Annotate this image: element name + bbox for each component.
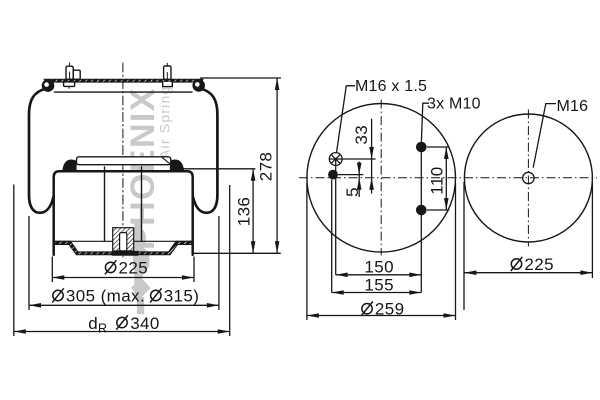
dim line 155: [332, 292, 422, 294]
svg-text:33: 33: [352, 125, 371, 145]
h-centerline shared: [299, 177, 597, 179]
svg-text:5: 5: [343, 187, 362, 197]
bar chamfer notch: [162, 157, 170, 164]
piston interior tube left: [104, 167, 106, 241]
svg-text:M16: M16: [557, 98, 589, 115]
dim line 225: [52, 277, 194, 279]
piston interior tube right: [141, 167, 143, 241]
arrows 225 left view: [52, 275, 64, 280]
dim line 259: [307, 315, 456, 317]
ext lines dR 340: [13, 185, 15, 337]
v-centerline: [527, 110, 529, 247]
centerline left view: [122, 63, 124, 257]
dim line 150: [336, 274, 422, 276]
arrows 33 (outside): [369, 147, 374, 159]
piston top bar: [77, 157, 171, 165]
arrows 305: [29, 303, 41, 308]
leader M16x1.5: [337, 86, 356, 153]
center bolt stud: [120, 233, 127, 251]
arrows 5 (outside): [357, 163, 362, 175]
arrows 225 right: [464, 270, 476, 275]
v-centerline: [380, 100, 382, 256]
svg-text:278: 278: [257, 152, 276, 182]
piston bottom rim top line: [55, 240, 192, 242]
ext line right dots: [420, 147, 422, 293]
svg-text:340: 340: [130, 314, 160, 333]
center hole M16: [523, 172, 534, 183]
ext line top 278: [200, 77, 281, 79]
svg-text:155: 155: [364, 276, 394, 295]
svg-text:Air Springs: Air Springs: [157, 77, 173, 159]
plate lower line: [55, 91, 193, 93]
center bolt nut: [111, 251, 138, 256]
text 225 right: [511, 257, 523, 271]
arrows 155: [332, 290, 344, 295]
svg-text:M16 x 1.5: M16 x 1.5: [355, 78, 427, 95]
svg-text:3x M10: 3x M10: [427, 96, 481, 113]
svg-text:315): 315): [164, 286, 200, 305]
watermark logo stem: [137, 297, 144, 314]
piston circle 225: [464, 114, 592, 242]
ext lines 305: [28, 216, 30, 310]
stud right: [163, 63, 173, 86]
svg-text:225: 225: [119, 258, 149, 277]
dim line 225 right: [464, 272, 592, 274]
top plate hatched band: [44, 79, 203, 82]
dim line 136: [252, 169, 254, 254]
watermark logo diamond: [131, 277, 151, 298]
arrows 259: [307, 313, 319, 318]
text 305 max 315: [52, 288, 161, 302]
watermark logo shaft: [134, 222, 142, 300]
bellows outer profile left lobe: [29, 89, 53, 213]
arrows 150: [336, 273, 348, 278]
dim line 340: [14, 331, 230, 333]
stud left: [64, 63, 81, 89]
arrows 136: [251, 169, 256, 181]
dim line 305: [29, 304, 219, 306]
air fitting M16x1.5 symbol: [329, 153, 375, 166]
text 259: [361, 302, 373, 316]
svg-text:225: 225: [524, 255, 554, 274]
svg-text:110: 110: [427, 166, 446, 194]
dim line 110: [445, 147, 447, 210]
ext line 136 top: [177, 168, 255, 170]
watermark Phoenix logo text: [124, 77, 173, 314]
bead ring right: [192, 79, 205, 92]
ext line bottom: [194, 252, 281, 254]
leader M16: [533, 104, 556, 168]
piston body outline: [54, 171, 193, 255]
svg-text:305 (max.: 305 (max.: [66, 286, 145, 305]
dim line 33: [371, 119, 373, 194]
ext lines 110: [427, 146, 449, 148]
ext lines below left dots: [331, 180, 333, 293]
svg-text:259: 259: [375, 300, 405, 319]
bellows pinch knob right: [170, 159, 184, 170]
text &#8960;225 under piston: [105, 260, 117, 274]
ext lines 225: [51, 257, 53, 283]
M10 stud dots: [307, 142, 456, 318]
watermark logo spearhead: [133, 246, 149, 277]
arrows 278: [275, 78, 280, 90]
bellows pinch knob left: [62, 159, 76, 170]
ext lines 225 right: [463, 182, 465, 310]
arrows 110: [444, 147, 449, 159]
ext lines 259: [306, 183, 308, 320]
leader 3xM10: [421, 103, 429, 142]
svg-text:136: 136: [234, 197, 253, 227]
plate circle 259: [307, 104, 456, 253]
bellows outer profile right lobe: [193, 89, 217, 213]
svg-text:150: 150: [364, 257, 394, 276]
ext line dot level: [338, 174, 363, 176]
center bolt hatched: [113, 228, 134, 251]
dim line 5: [358, 162, 360, 198]
piston bottom stamped band: [55, 241, 192, 254]
dim line 278: [276, 78, 278, 253]
bead ring left: [42, 79, 55, 92]
arrows 340: [14, 329, 26, 334]
